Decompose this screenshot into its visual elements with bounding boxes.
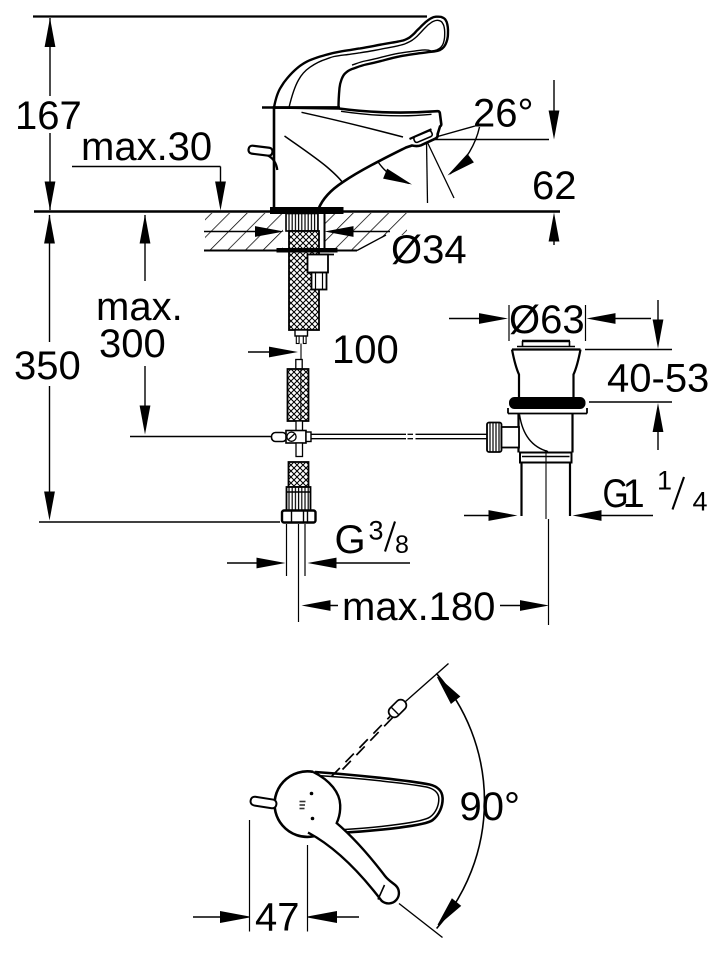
arc top arrowhead bbox=[433, 674, 459, 704]
coupling mid line bbox=[287, 491, 311, 493]
drain centreline bbox=[545, 450, 547, 519]
deck bottom line bbox=[204, 250, 357, 252]
lever end cap division bbox=[378, 885, 385, 900]
dim max.300 line upper bbox=[144, 215, 146, 281]
max.180 right arrow bbox=[520, 600, 549, 611]
pop-up rod right segment bottom bbox=[416, 438, 488, 440]
dim max.180 left line bbox=[312, 605, 338, 607]
plug cap base bbox=[517, 346, 575, 348]
svg-text:4: 4 bbox=[693, 487, 708, 517]
max.30 down arrow bbox=[215, 182, 226, 211]
spout height reference line (62 upper) bbox=[427, 139, 549, 141]
mounting nut upper bbox=[308, 255, 329, 273]
pop-up rod break piece bottom bbox=[408, 438, 414, 440]
40-53 ref line upper bbox=[585, 349, 672, 351]
dashed lever end cap bbox=[387, 698, 409, 720]
rod through mid hose bbox=[300, 369, 302, 421]
dim 167 line lower bbox=[49, 133, 51, 210]
side lever top view bbox=[250, 796, 277, 809]
40-53 up arrow bbox=[653, 403, 664, 432]
drain extension line bbox=[548, 519, 550, 625]
dim 350 line upper bbox=[49, 215, 51, 342]
pop-up rod left segment top bbox=[311, 433, 406, 435]
100 right arrow bbox=[269, 347, 298, 358]
waste body left side bbox=[517, 414, 519, 453]
svg-text:3: 3 bbox=[369, 516, 384, 546]
G3/8 left arrow bbox=[257, 558, 286, 569]
nut facet c bbox=[307, 511, 309, 523]
47 dim line right bbox=[336, 916, 359, 918]
svg-text:max.30: max.30 bbox=[81, 125, 212, 169]
svg-text:G: G bbox=[335, 518, 366, 562]
pop-up rod reference line bbox=[130, 436, 272, 438]
dim 350 line lower bbox=[49, 386, 51, 494]
47 dim line left bbox=[193, 916, 222, 918]
threaded coupling bbox=[287, 487, 311, 511]
solid lever ray bbox=[399, 904, 443, 938]
svg-text:max.180: max.180 bbox=[342, 585, 495, 629]
dim max.300 line lower bbox=[144, 366, 146, 408]
plug cap top bbox=[522, 340, 570, 342]
ball joint arc bbox=[520, 415, 549, 452]
26deg right arc bbox=[450, 127, 480, 174]
svg-text:167: 167 bbox=[15, 94, 82, 138]
G1 1/4 slash bbox=[673, 477, 685, 510]
coupler mid line bbox=[522, 456, 570, 458]
svg-text:47: 47 bbox=[255, 896, 300, 940]
body circle bbox=[275, 771, 328, 837]
grohe logo smudge bbox=[300, 802, 306, 809]
clamp screw bbox=[287, 432, 296, 441]
G3/8 extension line left bbox=[286, 524, 288, 576]
G3/8 extension line right bbox=[304, 524, 306, 576]
hose-end reference line (350 lower) bbox=[39, 521, 280, 523]
svg-text:1: 1 bbox=[657, 466, 672, 496]
rod below clamp bbox=[296, 443, 303, 457]
lever top view bbox=[308, 823, 399, 904]
dim 100 line bbox=[248, 351, 270, 353]
hose step bbox=[295, 330, 308, 336]
svg-text:40-53: 40-53 bbox=[607, 357, 709, 401]
clamp block bbox=[286, 431, 306, 444]
svg-text:100: 100 bbox=[332, 328, 399, 372]
knurled adjuster knob bbox=[487, 423, 502, 453]
dim max.30 shelf line bbox=[72, 166, 221, 168]
G3/8 slash bbox=[385, 522, 395, 552]
26deg left arc arrow bbox=[383, 169, 414, 190]
rubber seal ring bbox=[510, 398, 586, 409]
hatched deck left of hole bbox=[205, 213, 283, 250]
mounting washer bbox=[277, 249, 337, 253]
dim Ø34 right line bbox=[353, 231, 390, 233]
top reference line (167 upper) bbox=[33, 15, 427, 17]
centreline gap segment bbox=[300, 344, 302, 361]
26deg leader line bbox=[427, 126, 475, 140]
dashed lever outline a bbox=[332, 717, 391, 777]
aerator top edge bbox=[410, 129, 432, 139]
side temperature-stop lever bbox=[248, 145, 273, 156]
pop-up rod right segment top bbox=[416, 433, 488, 435]
dim max.180 right line bbox=[500, 605, 521, 607]
plug cap left tick bbox=[522, 341, 524, 346]
26deg right arc arrow bbox=[444, 154, 474, 180]
svg-text:350: 350 bbox=[14, 344, 81, 388]
deck top line bbox=[34, 210, 560, 213]
aerator inner band bbox=[413, 130, 433, 143]
faucet centreline lower bbox=[298, 524, 300, 622]
dim Ø34 left line bbox=[204, 231, 256, 233]
62 down arrow bbox=[549, 111, 560, 140]
dimension texts of top drawing bbox=[14, 92, 577, 630]
dashed lever ray bbox=[406, 664, 449, 702]
26deg ray slanted bbox=[427, 141, 455, 199]
spout top view inner bbox=[321, 776, 439, 830]
Ø34 left arrow bbox=[255, 226, 284, 237]
tailpipe left side bbox=[520, 463, 522, 517]
G3/8 connector nut bbox=[282, 511, 316, 523]
svg-text:1: 1 bbox=[623, 472, 645, 516]
mounting nut hex bbox=[312, 273, 327, 290]
max.300 down arrow bbox=[140, 406, 151, 435]
40-53 down arrow bbox=[653, 320, 664, 349]
90deg arc bbox=[436, 673, 484, 928]
spout top inner line bbox=[341, 111, 432, 116]
dim 167 line upper bbox=[49, 18, 51, 96]
deck hole right edge line bbox=[324, 213, 326, 250]
40-53 dim line lower bbox=[657, 430, 659, 450]
47 extension line right bbox=[307, 845, 309, 932]
cap bottom line bbox=[262, 106, 340, 108]
side lever hook bbox=[268, 156, 277, 171]
G1 1/4 right dim line bbox=[599, 515, 653, 517]
Ø63 extension line left bbox=[508, 305, 510, 341]
logo dot lower bbox=[311, 817, 315, 821]
lever top inner line bbox=[289, 20, 445, 107]
Ø63 extension line right bbox=[585, 305, 587, 341]
pop-up rod break piece top bbox=[408, 433, 414, 435]
washer lower line bbox=[307, 254, 334, 256]
hose tube right bbox=[303, 336, 306, 344]
arc bottom arrowhead bbox=[434, 899, 461, 928]
G1 1/4 right-point arrow bbox=[489, 510, 518, 521]
nut facet a bbox=[291, 511, 293, 523]
26deg left arc bbox=[373, 153, 409, 184]
seal lower flange left bbox=[507, 408, 509, 414]
Ø34 leader diagonal bbox=[357, 235, 386, 251]
rod below mid hose bbox=[296, 421, 303, 431]
threaded shank top bbox=[286, 214, 318, 232]
Ø63 left arrow bbox=[479, 313, 508, 324]
faucet base on deck bbox=[271, 208, 344, 214]
nut facet b bbox=[303, 511, 305, 523]
flange right side bbox=[574, 350, 581, 399]
G1 1/4 left dim line bbox=[464, 515, 491, 517]
cartridge dome arc bbox=[313, 772, 340, 829]
flange top edge bbox=[512, 348, 581, 350]
seal lower flange bottom bbox=[508, 413, 587, 415]
logo dot upper bbox=[310, 792, 314, 796]
62 up arrow bbox=[549, 213, 560, 242]
dim 62 line lower tail bbox=[553, 240, 555, 245]
26deg ray vertical bbox=[427, 141, 428, 204]
nut facet left bbox=[315, 273, 317, 290]
47 extension line left bbox=[249, 820, 251, 932]
40-53 dim line upper bbox=[657, 300, 659, 322]
40-53 ref line lower bbox=[589, 401, 672, 403]
G3/8 right arrow bbox=[308, 558, 337, 569]
hatched deck right of hole bbox=[325, 213, 407, 250]
waste body right side bbox=[571, 414, 573, 453]
inner blend curve B bbox=[285, 136, 343, 183]
braided hose lower bbox=[289, 462, 309, 487]
47 right arrow bbox=[308, 912, 337, 923]
svg-text:8: 8 bbox=[395, 531, 409, 559]
nut facet right bbox=[322, 273, 324, 290]
dashed lever outline b bbox=[343, 713, 398, 770]
svg-text:Ø63: Ø63 bbox=[509, 298, 585, 342]
tailpipe right side bbox=[569, 463, 571, 517]
G1 1/4 left-point arrow bbox=[573, 510, 602, 521]
flange left side bbox=[512, 350, 519, 399]
167 up arrow bbox=[45, 18, 56, 47]
spout top view outer bbox=[315, 772, 443, 833]
350 down arrow bbox=[44, 492, 55, 521]
dim max.30 drop line bbox=[220, 167, 222, 186]
body + spout outline bbox=[274, 108, 441, 210]
dim 62 line upper bbox=[553, 80, 555, 114]
hose tube left bbox=[296, 336, 299, 344]
plug cap right tick bbox=[569, 341, 571, 346]
inner blend curve A bbox=[302, 112, 404, 137]
svg-text:62: 62 bbox=[532, 164, 577, 208]
Ø63 right arrow bbox=[587, 313, 616, 324]
pop-up rod left segment bottom bbox=[311, 438, 406, 440]
dim G3/8 left line bbox=[227, 562, 258, 564]
167 down arrow bbox=[45, 182, 56, 211]
arrowheads of top drawing dims bbox=[44, 18, 559, 611]
max.300 up arrow bbox=[140, 215, 151, 244]
braided hose upper bbox=[289, 231, 319, 330]
seal lower flange right bbox=[586, 408, 588, 414]
coupler ring bbox=[520, 453, 572, 463]
knob connector bbox=[502, 427, 520, 448]
dim G3/8 right line bbox=[336, 562, 410, 564]
clamp right nub bbox=[306, 432, 311, 442]
svg-text:90°: 90° bbox=[460, 785, 521, 829]
braided hose middle bbox=[288, 369, 309, 421]
Ø63 right dim line bbox=[615, 318, 651, 320]
max.180 left arrow bbox=[302, 600, 331, 611]
connecting rod above mid hose bbox=[296, 360, 302, 370]
47 left arrow bbox=[221, 912, 250, 923]
lever and cap outline bbox=[274, 17, 448, 108]
clamp screw slot bbox=[289, 434, 295, 440]
rod cap left of clamp bbox=[272, 433, 287, 442]
Ø63 left dim line bbox=[449, 318, 479, 320]
Ø34 right arrow bbox=[325, 226, 354, 237]
350 up arrow bbox=[44, 215, 55, 244]
svg-text:26°: 26° bbox=[473, 92, 534, 136]
svg-text:300: 300 bbox=[99, 322, 166, 366]
